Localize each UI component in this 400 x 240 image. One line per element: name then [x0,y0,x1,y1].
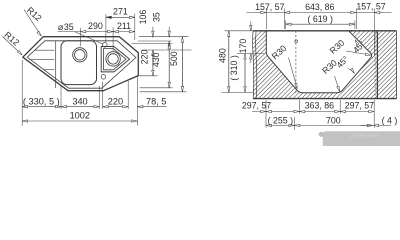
left view: small bowl drain ring [106,52,120,66]
right view: cutout outline [266,31,371,93]
left view: dimension 35 vertical [138,40,172,42]
left view: sink inner rim contour [27,41,136,88]
left view: small bowl outer pentagon [101,47,129,72]
right view: left dimension column (310) [237,53,265,55]
svg-text:157, 57: 157, 57 [255,2,284,12]
left view: dimension 500 right side [140,91,187,93]
right view: small circle on miter line [295,40,298,43]
right view: gap (4) double line [374,31,376,99]
svg-text:⌀ 35: ⌀ 35 [58,22,74,32]
svg-text:297, 57: 297, 57 [242,100,271,110]
left view: leader R12 top [24,10,41,36]
right view: dimension 700 [294,124,372,126]
left view: dimension 78,5 [137,106,166,108]
svg-text:35: 35 [152,12,162,22]
right view: dimension 297,57 bottom left [252,111,299,113]
right view: bottom dimension extension lines [265,100,267,128]
right view: dimension 643,86 [284,12,356,14]
svg-text:297, 57: 297, 57 [345,100,374,110]
svg-text:211: 211 [117,21,131,31]
left view: dimension 271 [105,14,107,42]
right view: dimension (4) [361,124,373,126]
svg-text:ДЛЯКУХНИ: ДЛЯКУХНИ [350,133,378,139]
left view: dimension 106 vertical [139,36,189,38]
svg-text:643, 86: 643, 86 [305,2,334,12]
left view: dimension 211 [134,14,136,41]
svg-text:220: 220 [108,96,123,106]
left view: dimension 220 right side [139,75,158,77]
right view: left dimension column 480 [225,30,254,32]
right view: miter joint dashed line [295,31,297,93]
right view: dimension 297,57 bottom right [340,111,374,113]
left view: drainer right edge [55,41,57,88]
svg-text:340: 340 [72,96,87,106]
right view: top dimension extension lines [265,9,267,30]
svg-text:480: 480 [217,48,227,63]
left view: small bowl inner pentagon [103,49,126,70]
left view: main bowl [61,41,97,85]
left view: dimension 340 [61,106,99,108]
watermark box [323,131,400,146]
svg-text:500: 500 [169,51,179,66]
svg-text:220: 220 [140,50,150,65]
svg-text:( 255 ): ( 255 ) [268,115,293,125]
right view: left dimension column 170 [250,21,252,31]
svg-text:( 330, 5 ): ( 330, 5 ) [23,96,60,106]
right view: dimension (255) [266,124,294,126]
svg-text:363, 86: 363, 86 [305,100,334,110]
right view: dimension 157,57 top left [247,12,285,14]
svg-text:271: 271 [113,6,128,16]
svg-text:157, 57: 157, 57 [356,1,385,11]
left view: leader R12 left [3,37,22,55]
left view: tap hole top [103,43,108,48]
svg-text:( 4 ): ( 4 ) [382,115,398,125]
right view: dimension 363,86 [299,111,340,113]
right view: worktop band top edge [253,30,397,32]
svg-text:1002: 1002 [70,111,90,121]
left view: drainer groove 2 [30,59,55,61]
left view: sink outline (outer contour) [23,37,139,91]
left view: dimension (330,5) [22,106,61,108]
svg-text:( 310 ): ( 310 ) [229,55,239,80]
right view: worktop band bottom edge [253,98,397,100]
svg-text:430: 430 [151,52,161,67]
left view: dimension 430 right side [132,42,173,44]
svg-text:700: 700 [326,115,341,125]
left view: bottom dimension row extension lines [21,60,23,126]
left view: dimension 290 [79,28,81,46]
left view: main bowl drain ring [73,48,87,62]
right view: dimension (619) [286,23,355,25]
right view: dimension 157,57 top right [356,12,391,14]
svg-text:78, 5: 78, 5 [146,96,166,106]
svg-text:106: 106 [138,10,148,25]
left view: drainer groove 1 [34,49,54,51]
left view: dimension 220 bottom [103,106,129,108]
right view: worktop break line left [253,31,254,99]
svg-text:170: 170 [238,39,248,54]
svg-text:( 619 ): ( 619 ) [307,14,332,24]
left view: tap hole bottom [101,75,106,80]
svg-text:290: 290 [88,21,103,31]
right view: worktop band right edge [396,31,398,99]
left view: drainer groove 3 [43,69,54,71]
left view: dimension 1002 [22,120,137,122]
